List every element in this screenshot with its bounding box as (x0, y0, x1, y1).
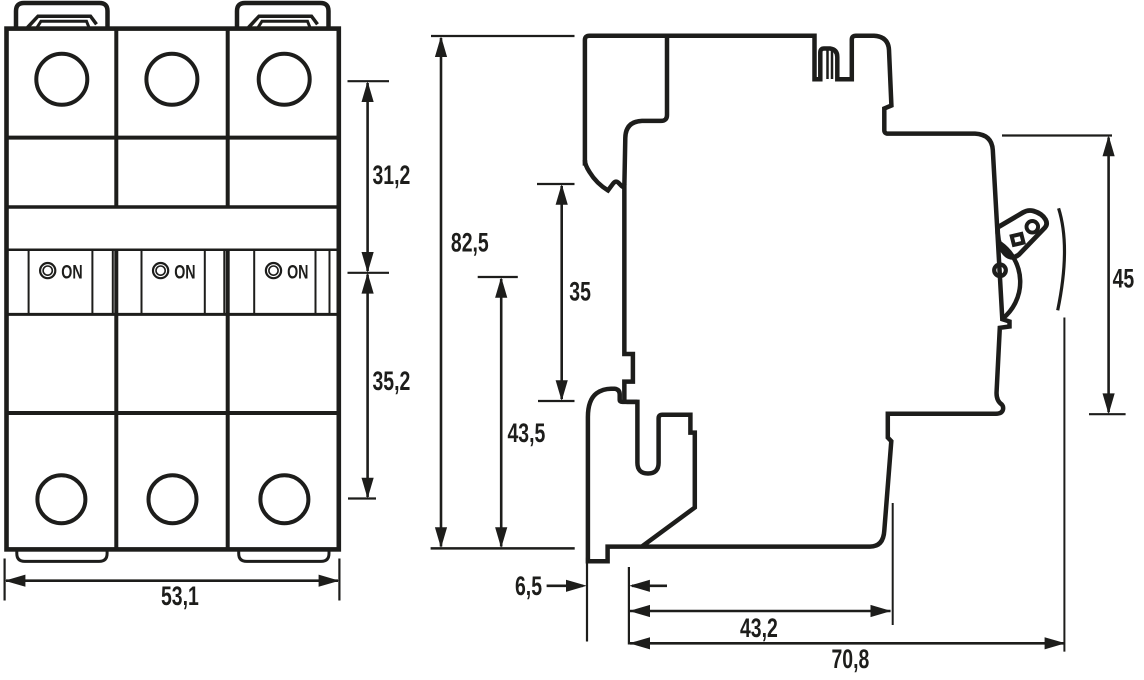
top mounting tab right inner trapezoid 2 (258, 21, 310, 27)
bottom tab left (17, 552, 107, 562)
dim ext line 53,1 right (338, 559, 340, 601)
ON label pole 1 (61, 261, 82, 283)
dim line 43,2 (630, 610, 891, 613)
ext tick bottom 35 (538, 400, 575, 402)
dim line 35 (560, 186, 563, 399)
top terminal circle pole 2 (146, 54, 197, 105)
indicator ring pole 3 (266, 263, 281, 278)
dim label 6,5 (515, 571, 542, 601)
ext tick top 82,5 (431, 35, 575, 37)
ON row bottom line (7, 313, 339, 316)
ext line 43,2 right (892, 503, 894, 625)
ON row top line (7, 249, 339, 252)
dim label 31,2 (373, 160, 411, 190)
side profile main outline (585, 36, 1010, 562)
ext line 6,5 / 43,2 / 70,8 left (628, 567, 630, 645)
toggle pivot (994, 265, 1006, 277)
dim line 43,5 (500, 279, 503, 547)
ext tick top 45 (1002, 134, 1112, 136)
toggle travel arc (1058, 208, 1065, 310)
horizontal rib line 3 (7, 411, 339, 415)
horizontal rib line 1 (7, 136, 339, 140)
dim line 31,2 (366, 83, 369, 271)
ON window pole 1 (29, 250, 113, 315)
indicator ring pole 2 (153, 263, 168, 278)
top terminal circle pole 1 (36, 54, 87, 105)
svg-text:70,8: 70,8 (832, 644, 870, 674)
svg-text:31,2: 31,2 (373, 160, 411, 190)
dim line 70,8 (630, 642, 1065, 645)
pole divider 1 lower (114, 250, 118, 550)
breaker body outline (7, 29, 339, 550)
horizontal rib line 2 (7, 205, 339, 209)
toggle lever (998, 211, 1047, 258)
ext tick bottom 82,5 / 43,5 (431, 547, 575, 550)
dim tick top (31,2) (348, 80, 390, 82)
side recess contour (585, 36, 667, 191)
ext line 70,8 right (1063, 318, 1065, 652)
pole divider 1 upper (114, 29, 118, 207)
svg-text:45: 45 (1113, 263, 1135, 293)
dim label 70,8 (832, 644, 870, 674)
ON window pole 3 (254, 250, 329, 315)
ext tick top 35 (537, 183, 575, 185)
dim label 35 (569, 276, 591, 306)
grip rib lines top clip (826, 50, 829, 79)
toggle lever slot (1012, 234, 1024, 245)
dim label 35,2 (373, 366, 411, 396)
top mounting tab left inner trapezoid 1 (28, 16, 97, 27)
dim leader 6,5 right (632, 584, 667, 587)
dim line 53,1 (6, 579, 338, 582)
dim leader 6,5 left (547, 584, 583, 587)
ON label pole 2 (174, 261, 195, 283)
top mounting tab right (outer) (237, 3, 329, 29)
toggle boss arc (1000, 244, 1020, 319)
top mounting tab left inner trapezoid 2 (37, 21, 89, 27)
ext line 6,5 left (586, 558, 588, 642)
ext tick bottom 45 (1089, 413, 1126, 415)
svg-text:ON: ON (287, 261, 308, 283)
dim label 45 (1113, 263, 1135, 293)
dim ext line 53,1 left (3, 559, 5, 601)
ON label pole 3 (287, 261, 308, 283)
side recess lower line with notch (624, 184, 637, 402)
dim label 82,5 (451, 227, 489, 257)
svg-text:6,5: 6,5 (515, 571, 542, 601)
bottom terminal circle pole 3 (260, 475, 308, 523)
toggle lever hole (1027, 221, 1039, 233)
svg-text:ON: ON (174, 261, 195, 283)
svg-text:35: 35 (569, 276, 591, 306)
svg-text:82,5: 82,5 (451, 227, 489, 257)
svg-text:ON: ON (61, 261, 82, 283)
svg-text:43,5: 43,5 (508, 418, 546, 448)
bottom tab right (239, 552, 329, 562)
dim line 35,2 (366, 275, 369, 498)
dim line 82,5 (440, 38, 443, 547)
svg-text:43,2: 43,2 (740, 613, 778, 643)
dim tick bottom (35,2) (348, 497, 376, 499)
ext tick top 43,5 (478, 276, 518, 278)
pole divider 2 lower (226, 250, 230, 550)
top mounting tab right inner trapezoid 1 (249, 16, 318, 27)
pole divider 2 upper (226, 29, 230, 207)
dim tick middle (348, 272, 390, 274)
indicator ring pole 1 (40, 263, 55, 278)
bottom terminal circle pole 1 (37, 475, 85, 523)
svg-text:53,1: 53,1 (161, 581, 199, 611)
ON window pole 2 (142, 250, 225, 315)
top mounting tab left (outer) (16, 3, 108, 29)
bottom terminal circle pole 2 (149, 475, 197, 523)
dim line 45 (1107, 138, 1110, 413)
dim label 43,5 (508, 418, 546, 448)
svg-text:35,2: 35,2 (373, 366, 411, 396)
dim label 53,1 (161, 581, 199, 611)
top terminal circle pole 3 (259, 54, 310, 105)
dim label 43,2 (740, 613, 778, 643)
